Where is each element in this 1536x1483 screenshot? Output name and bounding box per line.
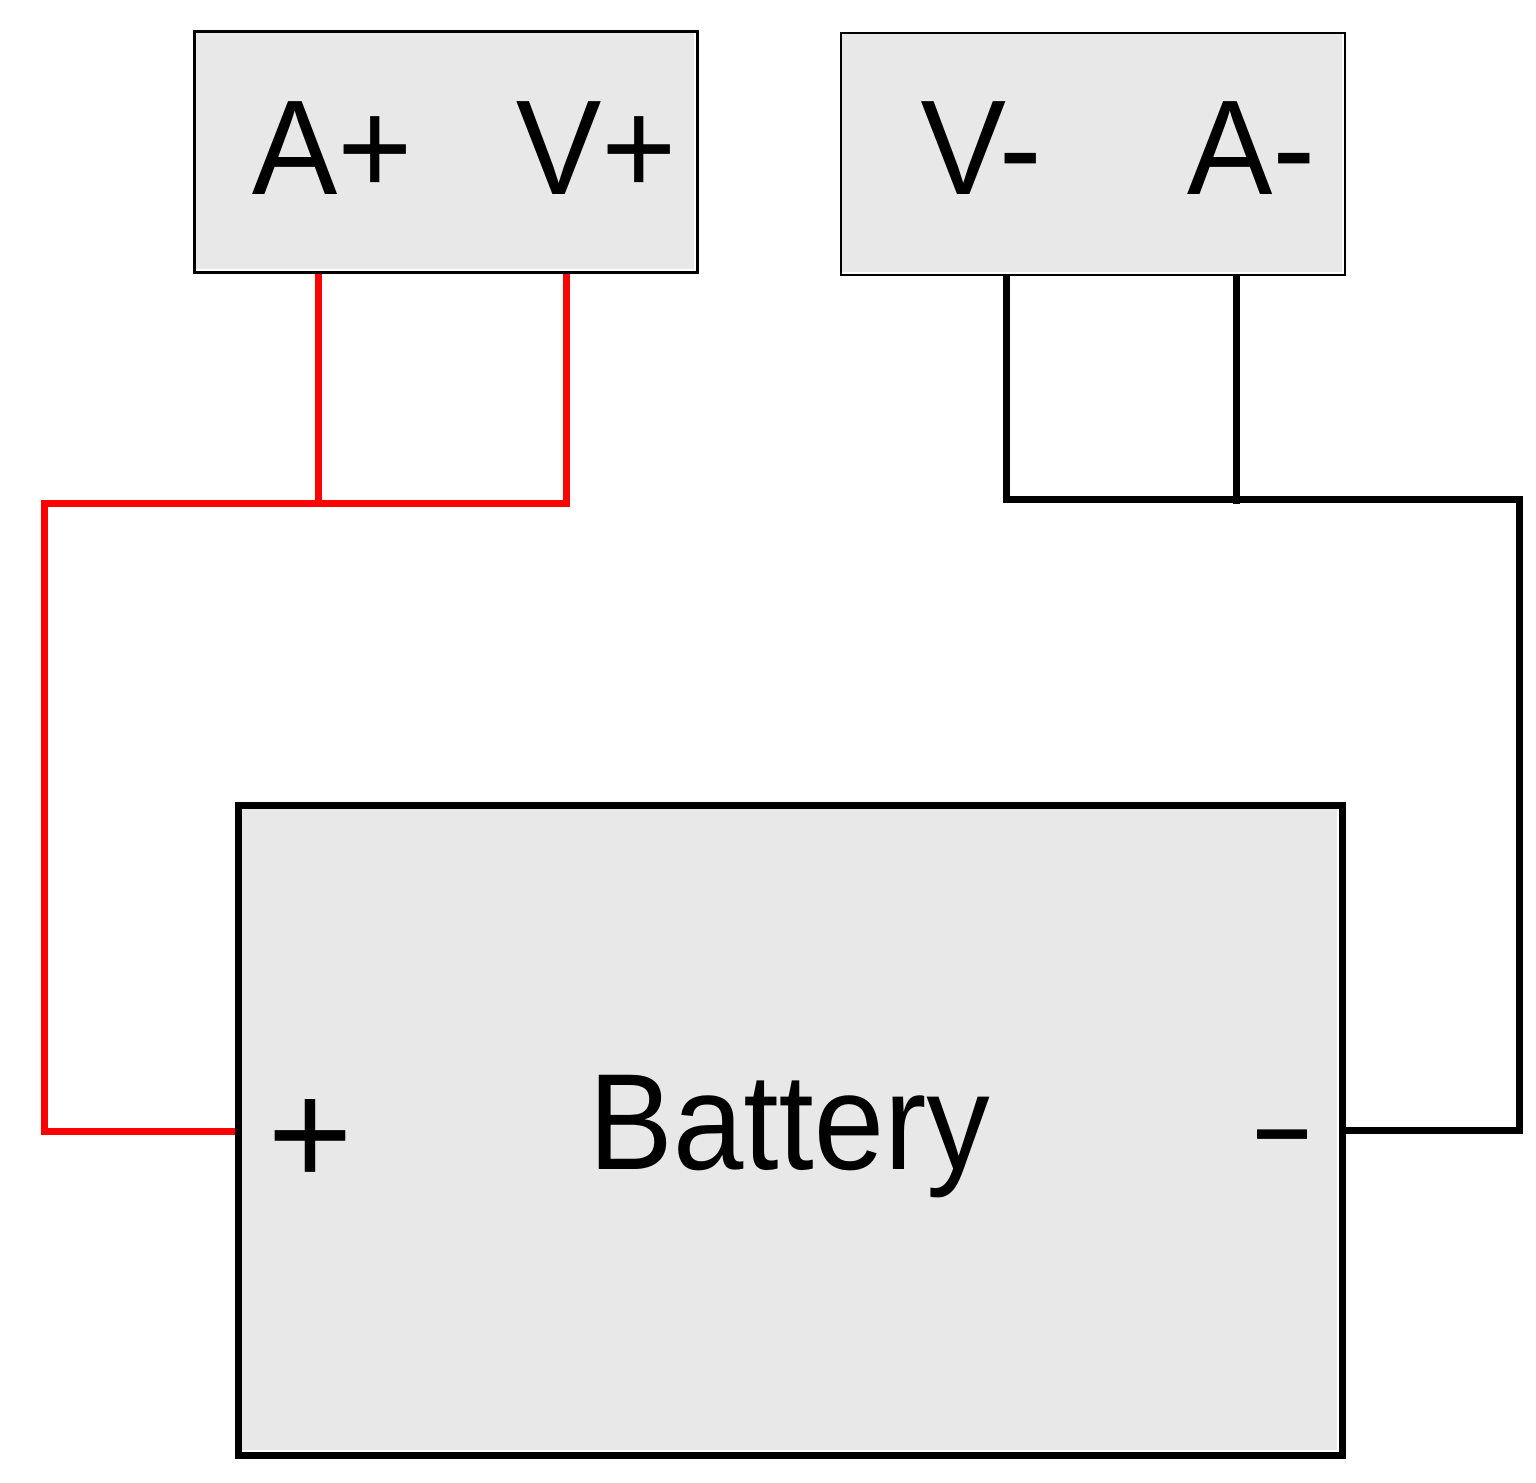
wire red top horizontal bus xyxy=(41,500,570,507)
wire red stub from A+ terminal xyxy=(315,272,322,507)
battery negative terminal mark xyxy=(1252,1067,1312,1199)
wire red left vertical drop xyxy=(41,500,48,1135)
battery B1 xyxy=(235,802,1346,1459)
meter terminal block negative (V- A-) xyxy=(840,32,1346,276)
wire black top horizontal bus xyxy=(1003,496,1523,503)
label terminal V- xyxy=(920,80,1041,215)
battery positive terminal mark xyxy=(267,1059,352,1208)
wire black right vertical drop xyxy=(1516,496,1523,1134)
meter terminal block positive (A+ V+) xyxy=(193,30,700,274)
label terminal A+ xyxy=(252,80,412,215)
wire black bottom horizontal to battery - xyxy=(1339,1127,1523,1134)
wire red bottom horizontal to battery + xyxy=(41,1128,243,1135)
label terminal A- xyxy=(1187,80,1315,215)
wire black stub from A- terminal xyxy=(1233,272,1240,504)
label terminal V+ xyxy=(516,80,676,215)
label battery name xyxy=(589,1054,990,1191)
wire red stub from V+ terminal xyxy=(563,272,570,507)
wire black stub from V- terminal xyxy=(1003,272,1010,503)
